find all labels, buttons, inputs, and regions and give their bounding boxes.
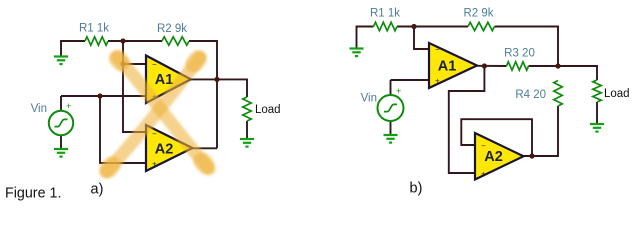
svg-text:R2 9k: R2 9k — [463, 8, 493, 20]
svg-text:b): b) — [410, 181, 423, 197]
svg-text:−: − — [152, 60, 157, 69]
svg-text:Vin: Vin — [361, 93, 377, 105]
svg-text:R2 9k: R2 9k — [157, 23, 187, 35]
svg-text:−: − — [435, 45, 440, 54]
svg-text:R1 1k: R1 1k — [79, 23, 109, 35]
svg-text:+: + — [481, 170, 486, 179]
svg-text:+: + — [66, 101, 71, 111]
svg-text:A1: A1 — [438, 59, 457, 75]
svg-text:R1 1k: R1 1k — [370, 8, 400, 20]
svg-text:Vin: Vin — [31, 103, 47, 115]
svg-text:R4 20: R4 20 — [515, 89, 546, 101]
svg-text:−: − — [152, 130, 157, 139]
svg-text:a): a) — [91, 182, 104, 198]
svg-text:+: + — [396, 86, 401, 96]
svg-text:A2: A2 — [484, 149, 503, 165]
svg-text:+: + — [435, 77, 440, 86]
svg-text:Load: Load — [255, 104, 281, 116]
svg-text:A2: A2 — [155, 142, 174, 158]
svg-text:+: + — [152, 160, 157, 169]
svg-text:−: − — [481, 142, 486, 151]
svg-text:Load: Load — [604, 88, 630, 100]
svg-text:Figure 1.: Figure 1. — [5, 186, 61, 202]
svg-text:R3 20: R3 20 — [504, 48, 535, 60]
